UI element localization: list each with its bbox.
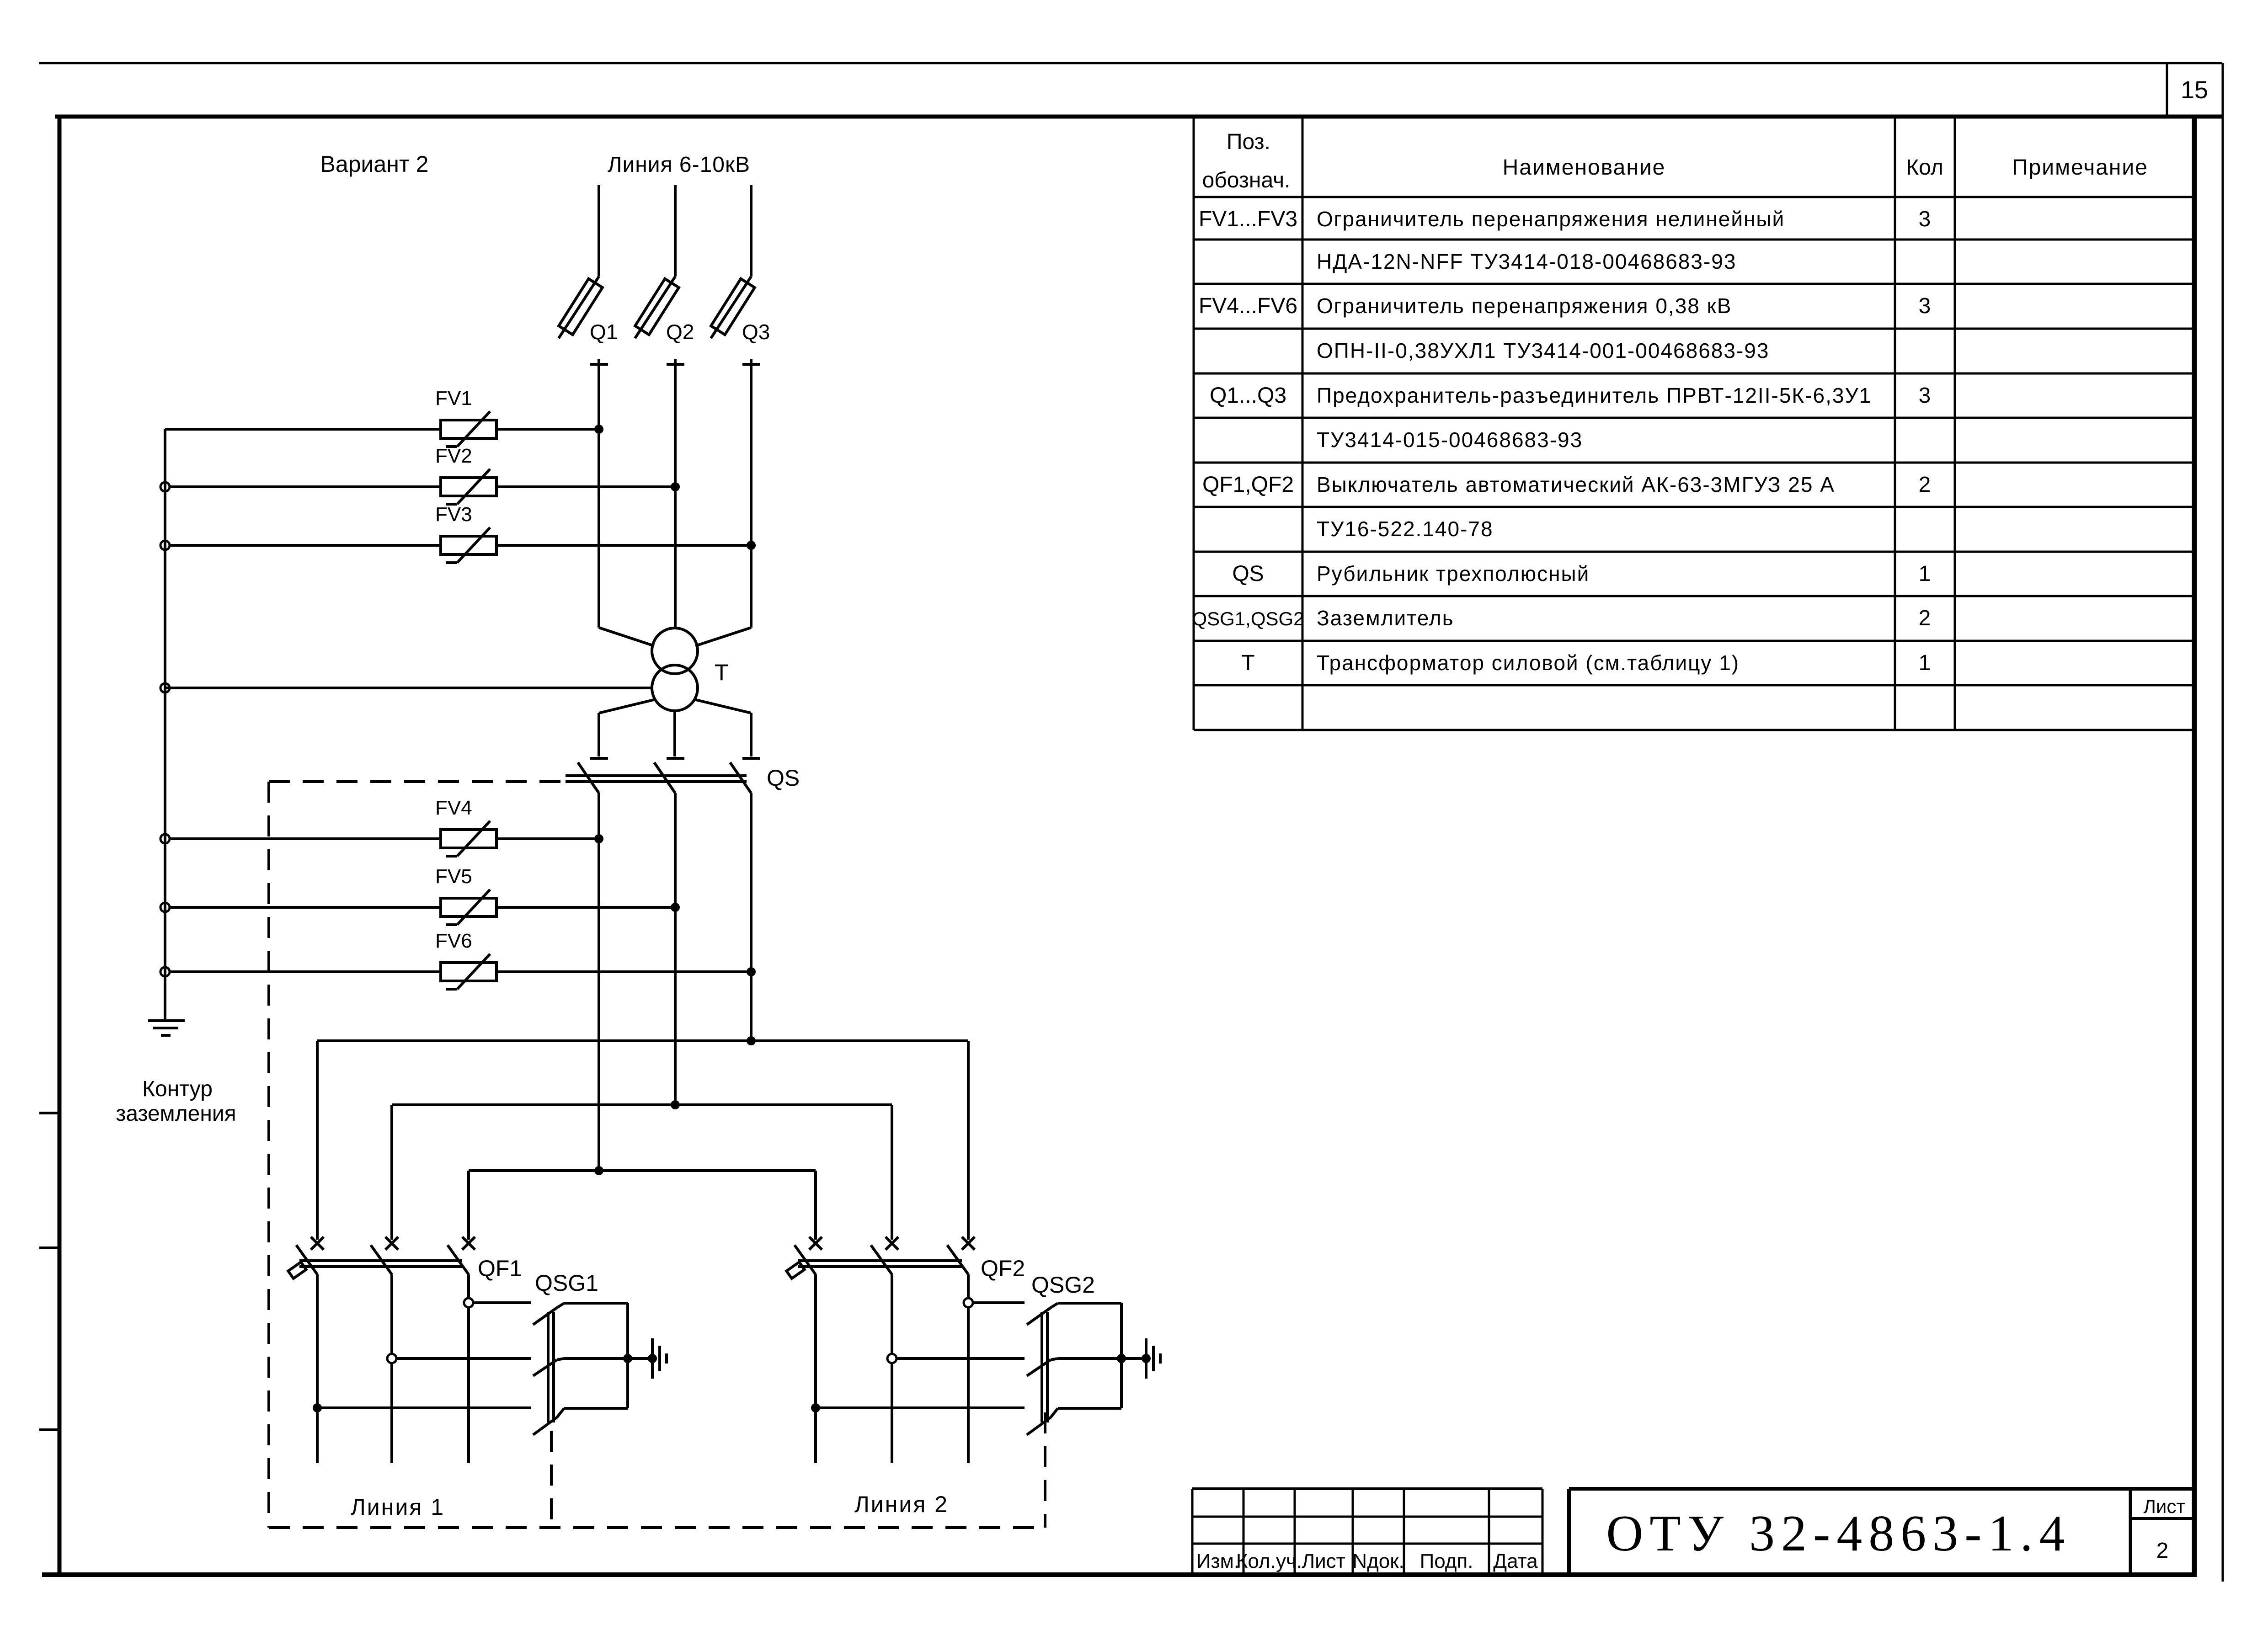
svg-text:Примечание: Примечание	[2012, 155, 2148, 180]
svg-text:3: 3	[1919, 384, 1931, 408]
svg-text:1: 1	[1919, 562, 1931, 586]
svg-text:ОТУ 32-4863-1.4: ОТУ 32-4863-1.4	[1606, 1505, 2071, 1562]
svg-text:FV3: FV3	[435, 503, 472, 526]
svg-text:Изм.: Изм.	[1196, 1550, 1239, 1572]
svg-text:Кол: Кол	[1906, 155, 1943, 180]
svg-text:Q1: Q1	[590, 320, 618, 344]
svg-text:Кол.уч.: Кол.уч.	[1236, 1550, 1302, 1572]
svg-text:QSG2: QSG2	[1031, 1272, 1095, 1298]
svg-text:FV4: FV4	[435, 797, 472, 819]
svg-text:НДА-12N-NFF ТУ3414-018-0046868: НДА-12N-NFF ТУ3414-018-00468683-93	[1317, 250, 1736, 273]
svg-text:FV5: FV5	[435, 865, 472, 888]
svg-text:Наименование: Наименование	[1503, 155, 1666, 180]
svg-text:QSG1: QSG1	[535, 1270, 598, 1296]
svg-text:Nдок.: Nдок.	[1352, 1550, 1404, 1572]
svg-text:2: 2	[2156, 1539, 2169, 1563]
svg-text:Т: Т	[1241, 651, 1254, 675]
svg-text:3: 3	[1919, 207, 1931, 231]
svg-text:FV6: FV6	[435, 930, 472, 952]
svg-text:Лист: Лист	[2143, 1496, 2185, 1517]
svg-text:Лист: Лист	[1302, 1550, 1345, 1572]
svg-text:QF1: QF1	[478, 1256, 522, 1281]
svg-text:Вариант 2: Вариант 2	[320, 151, 429, 177]
svg-text:ТУ16-522.140-78: ТУ16-522.140-78	[1317, 517, 1494, 541]
svg-text:Трансформатор силовой (см.табл: Трансформатор силовой (см.таблицу 1)	[1317, 651, 1740, 675]
svg-text:Линия 1: Линия 1	[351, 1494, 445, 1520]
svg-text:Заземлитель: Заземлитель	[1317, 606, 1454, 630]
svg-text:QF1,QF2: QF1,QF2	[1202, 473, 1294, 497]
svg-text:Подп.: Подп.	[1420, 1550, 1473, 1572]
svg-text:Рубильник трехполюсный: Рубильник трехполюсный	[1317, 562, 1590, 586]
svg-text:Т: Т	[715, 660, 729, 685]
svg-text:QF2: QF2	[981, 1256, 1025, 1281]
svg-text:Ограничитель перенапряжения не: Ограничитель перенапряжения нелинейный	[1317, 207, 1785, 231]
svg-text:Q3: Q3	[742, 320, 770, 344]
svg-text:Ограничитель перенапряжения 0,: Ограничитель перенапряжения 0,38 кВ	[1317, 294, 1732, 318]
svg-text:ТУ3414-015-00468683-93: ТУ3414-015-00468683-93	[1317, 428, 1583, 452]
svg-text:FV4...FV6: FV4...FV6	[1199, 294, 1297, 318]
svg-text:3: 3	[1919, 294, 1931, 318]
svg-text:2: 2	[1919, 473, 1931, 497]
svg-text:FV2: FV2	[435, 445, 472, 467]
svg-text:QS: QS	[767, 765, 800, 791]
svg-text:заземления: заземления	[116, 1102, 236, 1126]
svg-text:Выключатель автоматический АК: Выключатель автоматический АК-63-3МГУЗ 2…	[1317, 473, 1835, 496]
svg-text:Дата: Дата	[1493, 1550, 1538, 1572]
svg-text:Предохранитель-разъединитель П: Предохранитель-разъединитель ПРВТ-12II-5…	[1317, 384, 1872, 407]
svg-text:Q1...Q3: Q1...Q3	[1210, 384, 1286, 408]
svg-text:QSG1,QSG2: QSG1,QSG2	[1192, 608, 1304, 629]
svg-text:Линия 6-10кВ: Линия 6-10кВ	[608, 153, 750, 177]
svg-text:Q2: Q2	[666, 320, 694, 344]
svg-text:FV1...FV3: FV1...FV3	[1199, 207, 1297, 231]
svg-text:Контур: Контур	[142, 1077, 213, 1101]
svg-text:Линия 2: Линия 2	[854, 1492, 949, 1517]
svg-text:обознач.: обознач.	[1202, 168, 1291, 192]
svg-text:Поз.: Поз.	[1227, 130, 1270, 154]
svg-text:ОПН-II-0,38УХЛ1 ТУ3414-001-00: ОПН-II-0,38УХЛ1 ТУ3414-001-00468683-93	[1317, 339, 1769, 362]
svg-text:1: 1	[1919, 651, 1931, 675]
svg-text:FV1: FV1	[435, 387, 472, 410]
svg-text:QS: QS	[1232, 562, 1264, 586]
svg-text:2: 2	[1919, 606, 1931, 630]
svg-text:15: 15	[2181, 76, 2208, 104]
